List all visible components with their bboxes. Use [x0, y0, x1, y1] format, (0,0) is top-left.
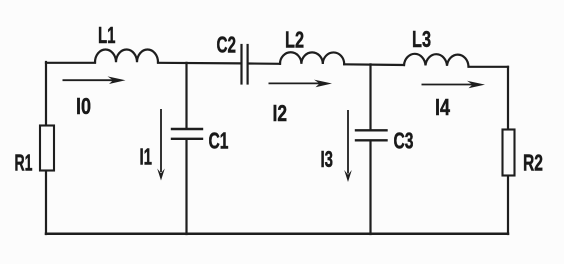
svg-text:I0: I0 [76, 93, 91, 119]
wire bottom rail [46, 233, 508, 236]
capacitor C2 left plate [240, 45, 242, 84]
svg-text:R2: R2 [523, 149, 543, 175]
inductor L1 [95, 50, 158, 63]
svg-text:I4: I4 [435, 94, 450, 120]
svg-text:I1: I1 [140, 144, 153, 170]
svg-text:C1: C1 [209, 127, 229, 153]
wire C3 bottom plate to bottom rail [369, 141, 371, 234]
svg-text:I3: I3 [321, 146, 334, 172]
capacitor C3 bottom plate [356, 139, 387, 141]
wire right vertical (R2 bottom down to bottom rail) [507, 176, 509, 235]
capacitor C1 bottom plate [172, 138, 202, 140]
svg-text:L2: L2 [285, 26, 304, 52]
wire top rail segment from left corner to L1 [46, 62, 95, 64]
svg-text:L3: L3 [412, 26, 431, 52]
current arrow I2 head [314, 80, 332, 88]
node B junction wire (top rail down to C3) [369, 64, 371, 129]
svg-text:C2: C2 [217, 31, 237, 57]
svg-text:I2: I2 [273, 100, 288, 126]
current arrow I3 head [344, 170, 352, 182]
current arrow I4 head [467, 81, 485, 89]
current arrow I4 shaft [422, 84, 476, 86]
wire top rail segment L2 to L3 (through node B) [344, 63, 404, 66]
svg-text:C3: C3 [394, 127, 414, 153]
wire top rail segment L1 to C2 left plate [158, 62, 241, 65]
current arrow I1 head [157, 169, 165, 181]
capacitor C3 top plate [356, 129, 387, 131]
capacitor C2 right plate [247, 45, 249, 84]
wire left vertical (top rail corner down to R1 top) [45, 62, 47, 126]
capacitor C1 top plate [172, 128, 202, 130]
inductor L2 [280, 52, 344, 64]
wire left vertical (R1 bottom down to bottom rail) [45, 171, 47, 235]
inductor L3 [404, 54, 469, 66]
wire top rail segment L3 to right corner [469, 66, 509, 68]
resistor R2 [503, 130, 515, 176]
current arrow I0 shaft [63, 79, 116, 81]
wire right vertical (top corner down to R2 top) [507, 67, 509, 130]
current arrow I2 shaft [269, 82, 323, 84]
current arrow I0 head [108, 76, 126, 84]
wire C1 bottom plate to bottom rail [185, 140, 187, 235]
wire top rail segment C2 right plate to L2 [249, 62, 280, 64]
svg-text:L1: L1 [98, 22, 116, 48]
resistor R1 [40, 126, 54, 171]
current arrow I3 shaft [347, 110, 349, 174]
current arrow I1 shaft [160, 109, 162, 172]
node A junction wire (top rail down to C1) [185, 63, 187, 128]
svg-text:R1: R1 [15, 149, 33, 175]
